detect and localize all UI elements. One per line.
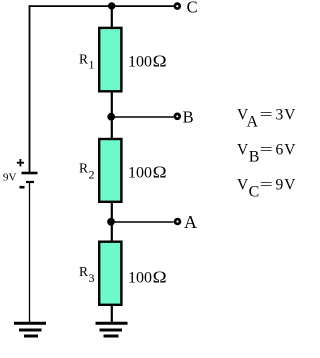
svg-text:C: C (187, 0, 198, 16)
svg-text:1: 1 (89, 58, 95, 72)
svg-text:R: R (79, 161, 88, 176)
label R3 (79, 264, 95, 285)
terminal A (open circle) (175, 219, 180, 224)
node B junction dot (107, 113, 115, 121)
label A (184, 212, 197, 232)
svg-text:2: 2 (89, 168, 95, 182)
svg-text:=: = (260, 141, 273, 159)
svg-text:Ω: Ω (153, 51, 167, 70)
terminal B (open circle) (175, 114, 180, 119)
svg-text:3: 3 (276, 107, 284, 124)
wire: top horizontal run from left branch to terminal C (29, 5, 174, 7)
label R2 (79, 161, 95, 182)
node A junction dot (107, 218, 115, 226)
svg-text:C: C (249, 183, 260, 200)
svg-text:6: 6 (276, 142, 284, 159)
svg-text:100: 100 (128, 53, 152, 70)
label C (187, 0, 198, 16)
resistor R1 body (99, 28, 121, 91)
wire: left vertical from battery - plate down to ground (29, 183, 31, 323)
svg-text:V: V (284, 107, 296, 124)
svg-text:R: R (79, 264, 88, 279)
svg-text:V: V (284, 177, 296, 194)
svg-text:Ω: Ω (153, 162, 167, 181)
svg-text:A: A (184, 212, 197, 232)
svg-text:B: B (249, 148, 260, 165)
resistor R3 body (99, 242, 121, 305)
battery B1 (9V cell plates) (22, 173, 38, 182)
value label 100 ohm (R1) (128, 51, 167, 70)
svg-text:Ω: Ω (153, 267, 167, 286)
svg-text:V: V (284, 142, 296, 159)
svg-text:9: 9 (276, 177, 284, 194)
svg-text:=: = (260, 106, 273, 124)
value label 100 ohm (R3) (128, 267, 167, 286)
battery + polarity mark (17, 159, 24, 166)
svg-text:3: 3 (89, 271, 95, 285)
wire: R2 bottom to R3 top through node A (111, 202, 113, 242)
ground symbol (left, battery return) (14, 323, 46, 336)
svg-text:9V: 9V (3, 172, 17, 184)
svg-text:V: V (237, 177, 249, 194)
svg-text:R: R (79, 52, 88, 67)
ground symbol (below R3) (96, 323, 128, 336)
wire: top node down to R1 (111, 6, 113, 28)
wire: left vertical from top corner down to battery + plate (29, 5, 31, 172)
battery value label 9V (3, 172, 17, 184)
value label 100 ohm (R2) (128, 162, 167, 181)
svg-text:=: = (260, 176, 273, 194)
node: top junction dot (108, 2, 115, 9)
svg-text:100: 100 (128, 269, 152, 286)
annotation VB = 6V (237, 141, 296, 165)
svg-text:V: V (237, 142, 249, 159)
wire: R1 bottom to R2 top through node B (111, 91, 113, 139)
terminal C (open circle) (175, 4, 180, 9)
battery - polarity mark (20, 186, 25, 189)
resistor R2 body (99, 139, 121, 202)
annotation VA = 3V (237, 106, 296, 131)
label B (183, 107, 194, 126)
label R1 (79, 52, 95, 72)
svg-text:100: 100 (128, 164, 152, 181)
wire: R3 bottom down to ground (111, 305, 113, 323)
wire: node A stub out to terminal A (112, 221, 174, 223)
annotation VC = 9V (237, 176, 296, 200)
svg-text:B: B (183, 107, 194, 126)
wire: node B stub out to terminal B (112, 116, 174, 118)
svg-text:A: A (247, 114, 259, 131)
